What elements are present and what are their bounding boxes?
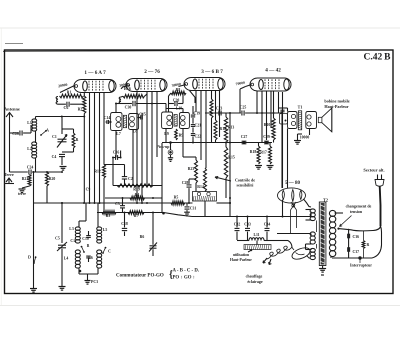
twisted pair heater — [291, 202, 297, 210]
svg-text:L1: L1 — [27, 121, 32, 125]
switch A — [40, 134, 42, 136]
svg-text:C2: C2 — [128, 177, 133, 181]
wire filter column — [348, 229, 350, 258]
ground below R21 — [19, 188, 26, 190]
svg-text:C.42 B: C.42 B — [364, 53, 392, 63]
wire IFT2 top — [182, 109, 184, 113]
wire x230 vertical — [229, 113, 231, 217]
wire grid bus y116 — [36, 116, 85, 118]
tube V2 76 — [126, 79, 167, 92]
wire bundle V4 pin6 — [282, 92, 284, 188]
svg-text:R15: R15 — [228, 156, 235, 160]
IFT2 core — [174, 115, 177, 127]
svg-text:Terre: Terre — [4, 172, 14, 177]
wire x62 down — [61, 203, 63, 243]
coil L3 — [75, 227, 80, 230]
wire C30 leads — [121, 103, 132, 105]
svg-text:Pick-up: Pick-up — [157, 145, 170, 149]
wire bundle V2 pin4 — [151, 92, 153, 187]
cord arrows — [263, 258, 267, 263]
capacitor C15 — [140, 116, 142, 120]
svg-text:R10: R10 — [264, 123, 271, 127]
bus y233 — [277, 233, 311, 235]
svg-text:PC3: PC3 — [91, 280, 98, 284]
T1 core — [298, 111, 301, 130]
wire L8 bottom to R23 — [182, 129, 184, 158]
svg-text:L7: L7 — [116, 132, 121, 136]
capacitor C26b — [280, 109, 284, 111]
svg-text:R8: R8 — [176, 88, 181, 92]
wire bundle V4 pin4 — [270, 91, 272, 128]
mains cord — [379, 186, 382, 226]
speaker cone — [322, 108, 332, 132]
resistor R18 — [257, 146, 260, 164]
resistor R11 — [210, 99, 213, 118]
IFT1 core — [123, 115, 126, 127]
cord wavy — [266, 246, 292, 259]
svg-text:C6: C6 — [64, 105, 69, 110]
wire C5 down — [61, 249, 63, 286]
wire R22 top — [73, 129, 75, 133]
resistor R16 — [123, 94, 145, 98]
svg-text:C16: C16 — [113, 151, 120, 155]
resistor R7 — [128, 211, 144, 215]
svg-text:C9: C9 — [86, 188, 91, 192]
capacitor C4 — [59, 153, 65, 155]
switch C — [102, 252, 104, 254]
T2 core — [319, 202, 326, 266]
wire C4 down — [61, 157, 63, 165]
wire V4 to T1 top — [278, 92, 280, 114]
svg-text:B: B — [87, 244, 90, 248]
T2 secondary tapped winding — [329, 210, 335, 216]
resistor R12 — [214, 120, 217, 140]
terre symbol — [6, 178, 12, 182]
resistor R2 — [83, 96, 86, 114]
resistor R13 — [224, 117, 227, 143]
rectifier filament — [292, 190, 294, 202]
T1 primary winding box — [288, 112, 298, 129]
wire pot to bus — [204, 201, 206, 217]
wire y113 bus — [205, 112, 241, 114]
svg-text:R5: R5 — [174, 196, 179, 200]
capacitor C36 — [347, 234, 349, 239]
capacitor C19 — [191, 114, 195, 116]
wire bundle V3 pin1 — [195, 91, 197, 113]
wire R22 bottom — [73, 148, 75, 152]
svg-text:C15: C15 — [139, 113, 146, 117]
capacitor C22 — [191, 133, 195, 135]
wire bundle V2 pin2 — [141, 113, 143, 203]
svg-text:C27: C27 — [241, 135, 248, 139]
wire bundle V2 pin3 — [146, 92, 148, 187]
IFT1 primary box L7 — [111, 113, 122, 131]
svg-text:C14: C14 — [104, 116, 111, 120]
wire C2 leads — [124, 165, 126, 177]
wire C18 — [124, 213, 126, 228]
svg-text:utilisation: utilisation — [233, 253, 250, 257]
wire bundle V2 pin1 — [136, 92, 138, 204]
resistor R8 — [171, 91, 186, 95]
tube V4 42 — [250, 78, 291, 91]
coil choke grid V1 — [56, 97, 58, 105]
coupling box C3 — [280, 114, 288, 125]
svg-text:C24: C24 — [27, 166, 34, 170]
wire antenna down — [9, 117, 11, 172]
capacitor C24 — [28, 170, 30, 175]
svg-text:R19: R19 — [133, 188, 140, 192]
ground under R17 — [267, 165, 274, 167]
svg-text:3 — 6 B 7: 3 — 6 B 7 — [201, 69, 223, 75]
leader arrow sensibilite — [215, 177, 231, 181]
wire IFT1 top left — [115, 104, 117, 113]
svg-text:R17: R17 — [260, 151, 267, 155]
svg-text:D: D — [28, 255, 31, 260]
svg-text:C23: C23 — [216, 107, 223, 111]
capacitor C37 — [347, 247, 349, 252]
svg-text:C5: C5 — [55, 237, 60, 241]
ground x62 — [59, 286, 66, 288]
svg-text:A - B - C - D.: A - B - C - D. — [173, 269, 200, 274]
wire x162 vertical — [161, 143, 163, 213]
tube V1 6A7 — [74, 80, 116, 93]
svg-text:sensibilité: sensibilité — [237, 183, 254, 188]
svg-text:terre: terre — [18, 192, 26, 196]
svg-text:changement de: changement de — [346, 204, 372, 209]
svg-text:L11: L11 — [253, 233, 259, 237]
svg-text:C22: C22 — [195, 135, 202, 139]
svg-text:C11: C11 — [70, 239, 76, 243]
switch B — [83, 251, 85, 253]
resistor R3a — [102, 211, 116, 215]
resistor R17 — [269, 146, 272, 164]
svg-text:L4: L4 — [64, 257, 69, 261]
ground under L4 L6 — [85, 280, 91, 282]
resistor R4 — [130, 196, 145, 200]
wire L4 L6 bottom — [78, 268, 80, 274]
wire bundle V4 pin2 — [261, 91, 263, 143]
wire rectifier anode down — [282, 200, 284, 218]
svg-text:R7: R7 — [134, 214, 139, 218]
wire bundle V1 pin1 — [83, 93, 85, 97]
resistor R19 — [117, 184, 153, 187]
svg-text:C25: C25 — [240, 106, 247, 110]
capacitor C30 — [132, 101, 134, 106]
wire V4 grid to C25 node — [239, 95, 241, 113]
wire C24 to R20 — [32, 171, 62, 173]
rectifier anode left — [282, 191, 284, 200]
ground under T1 — [294, 140, 301, 142]
header dash — [5, 43, 23, 45]
wire antenna bus — [10, 171, 28, 173]
wire cord to selector tap — [339, 226, 381, 231]
svg-text:C: C — [108, 250, 111, 254]
svg-text:Secteur alt.: Secteur alt. — [363, 168, 384, 173]
wire R16 right — [145, 94, 148, 96]
wire L11 row — [237, 240, 249, 242]
svg-text:C37: C37 — [353, 250, 360, 254]
IFT2 secondary box — [179, 113, 189, 129]
wire T2 taps — [335, 212, 344, 214]
T1 secondary winding box — [306, 112, 317, 129]
wire y164 stub — [104, 164, 125, 166]
wire interrupteur line — [332, 257, 372, 259]
coil L4 — [75, 250, 80, 254]
resistor R10 — [272, 118, 275, 140]
wire R24 top — [363, 231, 365, 241]
svg-text:L5: L5 — [103, 228, 108, 232]
IFT2 primary box — [162, 112, 173, 129]
svg-text:R2: R2 — [78, 108, 83, 112]
T2 primary windings — [310, 209, 315, 213]
svg-text:C28: C28 — [182, 181, 189, 185]
resistor R20 — [46, 172, 49, 186]
ground under R18 — [255, 165, 262, 167]
svg-text:chauffage: chauffage — [246, 274, 263, 279]
svg-text:C36: C36 — [353, 235, 360, 239]
wire L1-L2 — [35, 131, 37, 143]
switch interrupteur — [358, 256, 361, 259]
wire IFT2 bottom bus — [162, 142, 272, 144]
svg-text:5 — 80: 5 — 80 — [285, 181, 301, 186]
resistor R23 — [195, 160, 198, 183]
resistor R15 — [224, 147, 227, 178]
svg-text:10000: 10000 — [300, 136, 310, 140]
svg-text:R23: R23 — [188, 167, 195, 171]
wire L1 top — [35, 117, 37, 120]
wire bundle V3 pin5 — [215, 91, 217, 121]
svg-text:R: R — [76, 138, 79, 142]
wire pot — [256, 241, 258, 245]
wire R23 join — [195, 183, 197, 192]
scan page left edge — [0, 28, 2, 306]
coil L6 — [97, 250, 102, 254]
wire L2 bottom — [35, 158, 37, 172]
scan page bottom edge — [0, 305, 400, 307]
capacitor C3b — [120, 205, 125, 207]
wire rectifier to T2 — [304, 199, 312, 207]
leader utilisation — [248, 250, 252, 252]
svg-text:T1: T1 — [298, 105, 303, 110]
wire bundle V1 pin2 — [89, 93, 91, 204]
dial lamp — [290, 245, 311, 261]
wire C20 stub — [169, 103, 174, 105]
wire R8 left — [169, 93, 172, 96]
svg-text:R18: R18 — [250, 150, 257, 154]
capacitor C23 — [218, 111, 220, 116]
wire bundle V4 pin5 — [273, 91, 275, 118]
capacitor C31 — [185, 206, 190, 208]
capacitor C25 — [241, 111, 243, 116]
svg-text:C1: C1 — [52, 135, 57, 139]
svg-text:C21: C21 — [195, 124, 202, 128]
wire C1 top — [61, 117, 63, 135]
svg-text:C20: C20 — [173, 99, 180, 103]
capacitor C28 — [187, 184, 192, 186]
antenna symbol — [6, 113, 13, 118]
wire R20 down — [46, 186, 48, 203]
horizontal wire y185 — [113, 185, 162, 187]
pickup jack — [169, 151, 172, 154]
T2 winding stubs — [306, 209, 312, 211]
wire bundle V3 pin6 — [219, 91, 221, 138]
svg-text:Commutateur PO-GO: Commutateur PO-GO — [116, 274, 164, 279]
svg-text:Antenne: Antenne — [4, 107, 20, 112]
svg-text:éclairage: éclairage — [247, 279, 263, 284]
svg-text:Haut-Parleur: Haut-Parleur — [324, 104, 348, 109]
wire L5 top — [97, 203, 99, 227]
wire grid cap V2 — [121, 86, 130, 89]
wire T1 ground stub — [297, 134, 299, 141]
svg-text:R13: R13 — [228, 126, 235, 130]
wire pin5 lower — [103, 178, 105, 213]
svg-text:A: A — [46, 128, 49, 133]
resistor R22 — [72, 133, 75, 148]
capacitor C10 — [86, 235, 91, 237]
horizontal wire y212.5 — [97, 212, 164, 214]
wire T1 down to rectifier — [287, 129, 289, 189]
horizontal wire y198 — [105, 197, 162, 199]
ground under T2 — [322, 266, 324, 269]
wire x282 vertical — [281, 113, 283, 188]
svg-text:R20: R20 — [49, 177, 56, 181]
variable capacitor C1 — [58, 138, 67, 140]
wire T1 secondary down — [309, 129, 311, 136]
wire bundle V2 pin5 — [156, 92, 158, 158]
wire bundle V3 pin2 — [200, 91, 202, 161]
wire C31 leads — [186, 203, 188, 206]
ground below C4 — [60, 166, 67, 168]
svg-text:R4: R4 — [135, 193, 140, 197]
svg-text:R3: R3 — [106, 214, 111, 218]
svg-text:bobine mobile: bobine mobile — [324, 99, 349, 104]
coil L5 — [97, 227, 102, 230]
bus y203 — [34, 202, 193, 204]
wire grid cap V1 — [60, 86, 75, 93]
wire R24 bottom — [363, 249, 365, 259]
resistor R14 — [204, 168, 207, 192]
wire C16 down — [112, 158, 114, 186]
variable capacitor C9 — [150, 245, 157, 247]
svg-text:R12: R12 — [94, 170, 101, 174]
resistor R1 — [60, 94, 84, 98]
wire bundle V4 pin3 — [266, 91, 268, 140]
IFT1 secondary box L8 — [129, 114, 139, 130]
svg-text:C31: C31 — [190, 207, 197, 211]
svg-text:tension: tension — [350, 209, 363, 214]
frame top scan doubling — [3, 50, 210, 53]
svg-text:1 — 6 A 7: 1 — 6 A 7 — [84, 70, 106, 76]
frame border — [5, 50, 394, 294]
wire bundle V4 pin1 — [256, 91, 258, 113]
svg-text:Interrupteur: Interrupteur — [350, 263, 372, 268]
coil L2 — [32, 142, 37, 145]
rectifier anode right — [300, 191, 302, 200]
wire x33 down — [33, 172, 35, 288]
svg-text:R16: R16 — [124, 86, 131, 91]
bus y216 — [192, 216, 311, 218]
capacitor C6 — [66, 102, 68, 107]
resistor R21 — [28, 175, 31, 187]
wire IFT2 caps column — [192, 106, 194, 114]
potentiometer divider — [244, 245, 271, 250]
wire bundle V1 pin4 — [99, 93, 101, 204]
svg-text:2 — 76: 2 — 76 — [144, 69, 160, 75]
wire R21 to ground — [22, 186, 30, 188]
wire interrupteur to cord — [372, 226, 382, 258]
svg-text:L3: L3 — [69, 227, 74, 231]
resistor R24 — [362, 241, 365, 249]
tube V3 6B7 — [184, 78, 225, 91]
svg-text:L2: L2 — [27, 147, 32, 151]
coil L1 — [32, 119, 37, 122]
svg-text:C30: C30 — [125, 106, 132, 110]
wire bundle V3 pin4 — [211, 91, 213, 100]
scan page top edge — [0, 27, 400, 29]
wire R15 down — [225, 178, 227, 198]
resistor R5 — [171, 201, 185, 205]
leader tension arrow — [340, 216, 352, 227]
wire lamp to T2 — [280, 240, 288, 242]
coil choke grid V2 — [121, 95, 123, 98]
wire bus216 to T2 — [310, 212, 312, 217]
wire L3 top — [78, 221, 80, 227]
svg-text:R1: R1 — [67, 91, 72, 95]
wire grid cap V3 — [179, 85, 187, 87]
wire bundle V1 pin5 — [103, 93, 105, 165]
speaker voice coil — [318, 117, 322, 122]
svg-text:C4: C4 — [52, 155, 57, 159]
wire grid cap V4 — [246, 85, 252, 87]
capacitor C12b — [86, 255, 91, 257]
capacitor C20 — [174, 101, 176, 106]
wire bundle V1 pin3 — [94, 93, 96, 204]
ground x33 — [30, 288, 37, 290]
svg-text:C19: C19 — [194, 112, 201, 116]
svg-text:C29: C29 — [263, 135, 270, 139]
wire bundle V3 pin3 — [205, 91, 207, 169]
svg-text:R6: R6 — [140, 235, 145, 239]
resistor R12b — [103, 165, 106, 179]
svg-text:R: R — [367, 243, 370, 247]
svg-text:PO ↕ GO ↕: PO ↕ GO ↕ — [173, 276, 196, 281]
rectifier tube V5 — [278, 188, 306, 203]
mains plug — [377, 175, 379, 180]
wire IFT1 bottom — [115, 131, 117, 158]
svg-text:R14: R14 — [197, 185, 204, 189]
svg-text:R21: R21 — [22, 177, 29, 181]
wire bus233 to T2 — [310, 234, 312, 237]
resistor R9 — [175, 129, 178, 140]
wire bottom to C3 — [87, 274, 89, 281]
svg-text:Haut-Parleur: Haut-Parleur — [230, 258, 252, 262]
svg-text:4 — 42: 4 — 42 — [265, 68, 281, 74]
sensitivity potentiometer — [193, 192, 217, 202]
capacitor C21 — [191, 124, 195, 126]
